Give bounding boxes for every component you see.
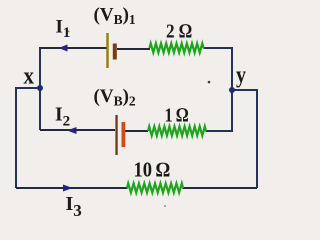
current arrow I2 (points left) — [67, 127, 77, 134]
svg-text:10 Ω: 10 Ω — [134, 158, 171, 182]
battery (V_B)_2 long plate (positive) — [115, 115, 117, 155]
wire node y right stub and outer-right vertical — [232, 90, 257, 188]
wire top-left horizontal (x corner to battery B1) — [40, 47, 107, 49]
current arrow I1 (points left) — [59, 45, 68, 52]
svg-text:1 Ω: 1 Ω — [165, 105, 189, 127]
wire battery B1 to resistor R1 — [117, 48, 150, 50]
wire bottom right (resistor R3 to corner) — [183, 187, 258, 189]
resistor R1 2-ohm zigzag — [150, 43, 204, 52]
battery (V_B)_1 short plate (negative) — [113, 44, 117, 60]
resistor R2 1-ohm zigzag — [148, 126, 206, 135]
battery (V_B)_1 long plate (positive) — [106, 33, 108, 68]
wire resistor R2 to right, up to node y — [206, 90, 233, 131]
scan speck below 10-ohm resistor — [164, 205, 166, 207]
wire node x down to middle branch — [39, 88, 41, 130]
wire resistor R1 to top-right corner, down to node y — [204, 48, 233, 89]
battery (V_B)_2 short plate (negative) — [122, 122, 126, 147]
node x junction dot — [37, 85, 43, 91]
wire left vertical from top corner to node x — [39, 47, 41, 88]
current arrow I3 (points right) — [63, 185, 73, 192]
scan speck right of I1 label — [68, 31, 70, 33]
svg-text:y: y — [236, 63, 246, 89]
resistor R3 10-ohm zigzag — [127, 183, 183, 192]
scan speck near node y — [208, 81, 211, 84]
wire middle branch left (to battery B2) — [40, 129, 115, 131]
wire node x left stub and outer-left vertical — [16, 88, 40, 188]
wire battery B2 to resistor R2 — [125, 130, 148, 132]
svg-text:x: x — [24, 64, 35, 90]
svg-text:2 Ω: 2 Ω — [166, 21, 192, 43]
wire bottom left (to resistor R3) — [16, 187, 128, 189]
node y junction dot — [229, 87, 235, 93]
